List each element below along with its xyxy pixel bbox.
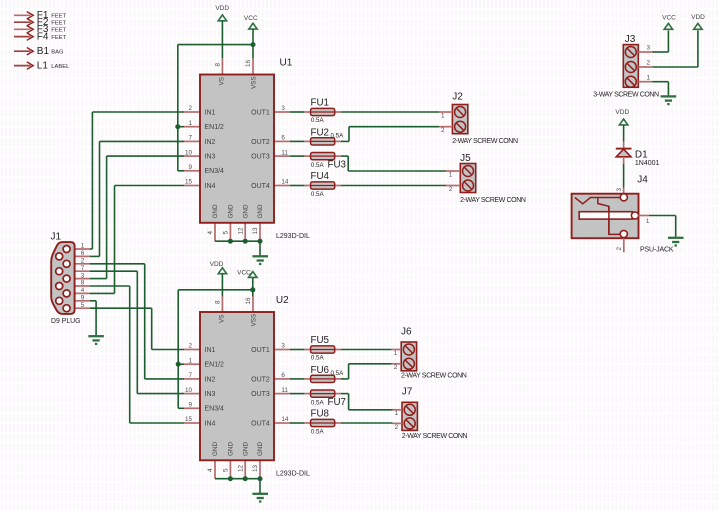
svg-text:14: 14 — [281, 416, 289, 423]
svg-text:0.5A: 0.5A — [311, 354, 325, 361]
svg-text:5: 5 — [81, 302, 85, 309]
svg-text:2-WAY SCREW CONN: 2-WAY SCREW CONN — [402, 433, 468, 440]
svg-text:0.5A: 0.5A — [311, 162, 325, 169]
svg-text:5: 5 — [223, 468, 230, 472]
svg-text:GND: GND — [242, 204, 249, 218]
svg-text:7: 7 — [188, 135, 192, 142]
svg-text:8: 8 — [215, 63, 222, 67]
svg-text:OUT2: OUT2 — [251, 376, 270, 383]
svg-text:2: 2 — [395, 424, 399, 431]
svg-text:VS: VS — [218, 314, 225, 322]
svg-text:IN4: IN4 — [205, 420, 216, 427]
svg-text:EN1/2: EN1/2 — [205, 124, 225, 131]
svg-text:11: 11 — [281, 387, 288, 394]
svg-text:13: 13 — [252, 464, 259, 472]
svg-text:FU4: FU4 — [311, 171, 330, 182]
svg-text:10: 10 — [185, 149, 193, 156]
svg-text:2: 2 — [449, 186, 453, 193]
svg-text:FEET: FEET — [51, 20, 66, 26]
svg-text:1: 1 — [81, 243, 85, 250]
svg-text:3: 3 — [616, 188, 623, 192]
svg-text:J7: J7 — [402, 386, 413, 397]
svg-text:FU3: FU3 — [328, 159, 347, 170]
svg-text:FU8: FU8 — [311, 409, 330, 420]
svg-text:1N4001: 1N4001 — [635, 160, 660, 167]
svg-text:VCC: VCC — [662, 14, 676, 21]
svg-text:PSU-JACK: PSU-JACK — [640, 247, 674, 254]
svg-text:J6: J6 — [401, 326, 412, 337]
svg-text:10: 10 — [185, 387, 193, 394]
svg-text:L293D-DIL: L293D-DIL — [276, 471, 310, 478]
svg-text:U1: U1 — [280, 58, 293, 69]
svg-text:8: 8 — [215, 300, 222, 304]
svg-text:2-WAY SCREW CONN: 2-WAY SCREW CONN — [452, 138, 518, 145]
svg-text:2: 2 — [188, 105, 192, 112]
svg-text:8: 8 — [81, 280, 85, 287]
svg-text:L293D-DIL: L293D-DIL — [276, 233, 310, 240]
svg-text:IN2: IN2 — [205, 139, 216, 146]
svg-text:4: 4 — [207, 468, 214, 472]
svg-text:EN3/4: EN3/4 — [205, 406, 225, 413]
svg-text:VDD: VDD — [691, 14, 705, 21]
svg-text:12: 12 — [237, 464, 244, 472]
svg-text:2: 2 — [394, 364, 398, 371]
svg-text:2: 2 — [81, 258, 85, 265]
svg-text:16: 16 — [245, 59, 252, 67]
svg-text:9: 9 — [81, 295, 85, 302]
svg-text:2: 2 — [441, 127, 445, 134]
svg-text:0.5A: 0.5A — [331, 132, 345, 139]
svg-text:VDD: VDD — [215, 5, 229, 12]
svg-text:OUT3: OUT3 — [251, 391, 270, 398]
svg-text:IN1: IN1 — [205, 347, 216, 354]
svg-text:FU6: FU6 — [311, 365, 330, 376]
svg-text:1: 1 — [395, 410, 399, 417]
svg-text:BAG: BAG — [51, 49, 64, 55]
svg-text:GND: GND — [228, 204, 235, 218]
svg-text:VDD: VDD — [615, 109, 629, 116]
svg-text:U2: U2 — [276, 295, 289, 306]
svg-text:4: 4 — [207, 231, 214, 235]
svg-text:1: 1 — [441, 112, 445, 119]
svg-text:13: 13 — [252, 227, 259, 235]
svg-text:VSS: VSS — [250, 314, 257, 327]
svg-text:J2: J2 — [452, 92, 463, 103]
svg-text:15: 15 — [185, 416, 193, 423]
svg-text:0.5A: 0.5A — [311, 117, 325, 124]
svg-text:GND: GND — [257, 204, 264, 218]
svg-text:LABEL: LABEL — [51, 64, 70, 70]
svg-text:FEET: FEET — [51, 28, 66, 34]
svg-text:OUT3: OUT3 — [251, 154, 270, 161]
svg-text:FU1: FU1 — [311, 97, 330, 108]
svg-text:VCC: VCC — [244, 15, 258, 22]
svg-text:0.5A: 0.5A — [331, 370, 345, 377]
svg-text:FEET: FEET — [51, 35, 66, 41]
svg-text:6: 6 — [81, 250, 85, 257]
svg-text:6: 6 — [281, 135, 285, 142]
svg-text:4: 4 — [81, 287, 85, 294]
svg-text:2: 2 — [647, 60, 651, 67]
svg-text:VS: VS — [218, 77, 225, 85]
svg-text:3: 3 — [81, 272, 85, 279]
svg-text:2-WAY SCREW CONN: 2-WAY SCREW CONN — [401, 373, 467, 380]
svg-text:J4: J4 — [637, 174, 648, 185]
svg-text:FU5: FU5 — [311, 335, 330, 346]
svg-text:1: 1 — [647, 74, 651, 81]
svg-text:J3: J3 — [625, 34, 636, 45]
svg-text:L1: L1 — [37, 61, 49, 72]
svg-text:IN3: IN3 — [205, 391, 216, 398]
svg-text:9: 9 — [188, 164, 192, 171]
svg-text:D1: D1 — [635, 149, 648, 160]
svg-text:2-WAY SCREW CONN: 2-WAY SCREW CONN — [460, 197, 526, 204]
svg-text:J1: J1 — [51, 232, 62, 243]
svg-text:VSS: VSS — [250, 76, 257, 89]
svg-text:EN3/4: EN3/4 — [205, 168, 225, 175]
svg-text:5: 5 — [223, 231, 230, 235]
svg-text:3-WAY SCREW CONN: 3-WAY SCREW CONN — [593, 92, 659, 99]
svg-text:IN4: IN4 — [205, 183, 216, 190]
svg-text:1: 1 — [449, 171, 453, 178]
svg-text:6: 6 — [281, 372, 285, 379]
svg-text:12: 12 — [237, 227, 244, 235]
svg-text:2: 2 — [188, 343, 192, 350]
svg-text:FU7: FU7 — [328, 397, 347, 408]
svg-text:OUT2: OUT2 — [251, 139, 270, 146]
svg-text:IN3: IN3 — [205, 154, 216, 161]
svg-text:VDD: VDD — [210, 261, 224, 268]
svg-text:7: 7 — [188, 372, 192, 379]
svg-text:3: 3 — [281, 105, 285, 112]
svg-text:GND: GND — [212, 442, 219, 456]
svg-text:1: 1 — [646, 218, 650, 225]
svg-text:0.5A: 0.5A — [311, 191, 325, 198]
svg-text:OUT4: OUT4 — [251, 183, 270, 190]
svg-text:3: 3 — [647, 45, 651, 52]
svg-text:0.5A: 0.5A — [311, 399, 325, 406]
svg-text:OUT1: OUT1 — [251, 347, 270, 354]
svg-text:11: 11 — [281, 149, 288, 156]
svg-text:GND: GND — [242, 442, 249, 456]
svg-text:OUT4: OUT4 — [251, 420, 270, 427]
svg-text:16: 16 — [245, 297, 252, 305]
svg-text:0.5A: 0.5A — [311, 428, 325, 435]
svg-text:1: 1 — [188, 357, 192, 364]
svg-text:EN1/2: EN1/2 — [205, 362, 225, 369]
svg-text:14: 14 — [281, 179, 289, 186]
svg-text:GND: GND — [257, 442, 264, 456]
svg-text:FEET: FEET — [51, 14, 66, 20]
svg-text:J5: J5 — [460, 153, 471, 164]
svg-text:2: 2 — [616, 247, 623, 251]
svg-text:F4: F4 — [37, 32, 49, 43]
svg-text:7: 7 — [81, 265, 85, 272]
svg-text:GND: GND — [228, 442, 235, 456]
svg-text:1: 1 — [188, 120, 192, 127]
svg-text:IN2: IN2 — [205, 376, 216, 383]
svg-text:IN1: IN1 — [205, 109, 216, 116]
svg-text:B1: B1 — [37, 46, 50, 57]
svg-text:GND: GND — [212, 204, 219, 218]
svg-text:3: 3 — [281, 343, 285, 350]
svg-text:15: 15 — [185, 179, 193, 186]
svg-text:FU2: FU2 — [311, 127, 330, 138]
svg-text:D9 PLUG: D9 PLUG — [51, 318, 81, 325]
svg-text:OUT1: OUT1 — [251, 109, 270, 116]
svg-text:9: 9 — [188, 402, 192, 409]
svg-text:1: 1 — [394, 350, 398, 357]
